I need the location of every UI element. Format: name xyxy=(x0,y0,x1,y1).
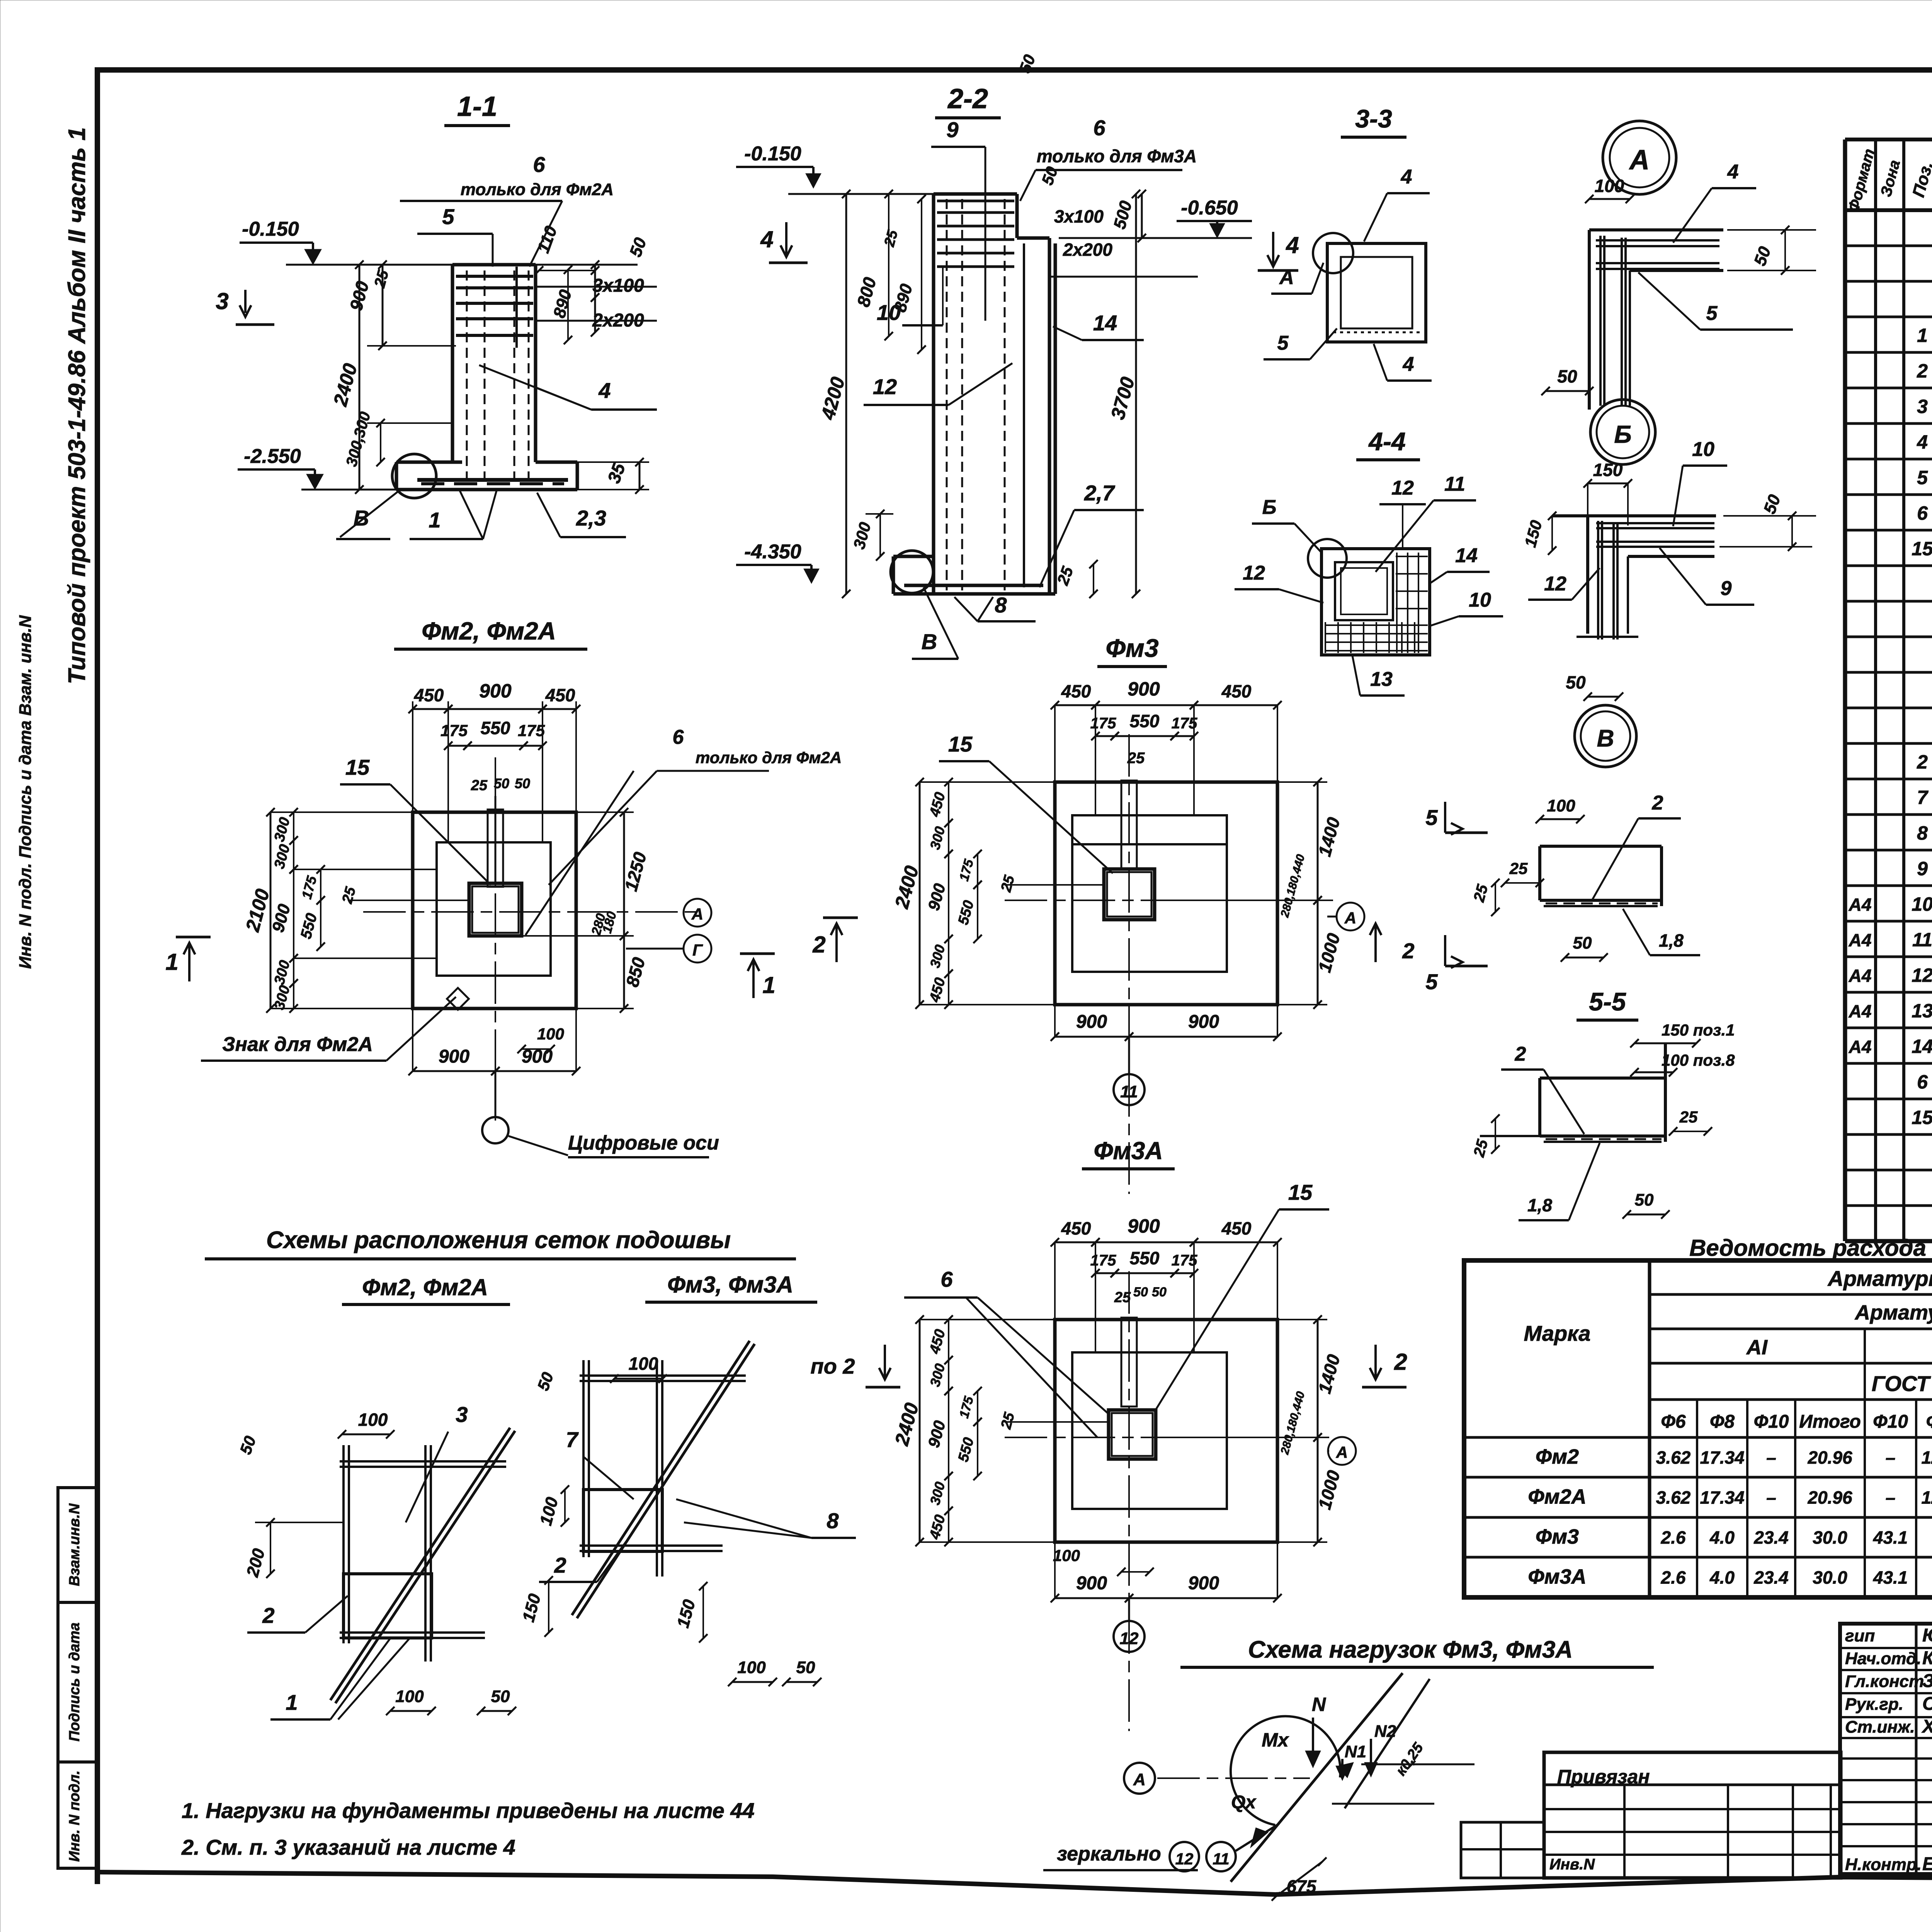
load scheme diagram xyxy=(1124,1763,1155,1794)
svg-text:Гл.конст: Гл.конст xyxy=(1845,1672,1924,1691)
detail B dims xyxy=(1588,483,1628,485)
svg-text:6: 6 xyxy=(1917,1071,1928,1093)
load scheme N2 arrow xyxy=(1370,1739,1372,1772)
svg-text:30.0: 30.0 xyxy=(1813,1527,1847,1548)
svg-text:Подпись и дата: Подпись и дата xyxy=(66,1622,83,1742)
svg-text:15: 15 xyxy=(948,732,973,756)
detail circle B on footing xyxy=(392,454,436,498)
svg-text:3: 3 xyxy=(456,1402,468,1427)
section mark 5 upper xyxy=(1445,802,1463,835)
svg-text:175: 175 xyxy=(1090,715,1116,732)
svg-text:Зильбертов: Зильбертов xyxy=(1922,1671,1932,1691)
svg-text:2х200: 2х200 xyxy=(1063,240,1112,260)
svg-text:А: А xyxy=(1344,909,1356,927)
detail V circle xyxy=(1575,705,1636,767)
plan Fm2 bottom dims xyxy=(413,1070,495,1072)
svg-text:только для Фм2А: только для Фм2А xyxy=(461,180,614,199)
svg-text:12: 12 xyxy=(873,374,897,399)
plan Fm3 centerlines xyxy=(1005,900,1333,901)
svg-text:А: А xyxy=(1133,1770,1146,1789)
svg-text:Типовой проект 503-1-49.86 Аль: Типовой проект 503-1-49.86 Альбом II час… xyxy=(64,127,90,684)
svg-text:9: 9 xyxy=(1917,858,1928,879)
svg-text:В: В xyxy=(354,506,369,530)
svg-text:6: 6 xyxy=(533,152,545,177)
svg-text:12: 12 xyxy=(1120,1629,1139,1648)
svg-text:550: 550 xyxy=(1130,711,1160,731)
section 3-3 square xyxy=(1327,243,1426,342)
svg-text:2,3: 2,3 xyxy=(576,506,606,530)
plan Fm2 left dims xyxy=(270,812,272,1009)
svg-text:1: 1 xyxy=(165,949,178,975)
svg-text:1,8: 1,8 xyxy=(1527,1195,1552,1215)
svg-text:13: 13 xyxy=(1912,1000,1932,1022)
plan Fm3A outline xyxy=(1055,1320,1277,1542)
svg-text:1. Нагрузки на фундаменты: 1. Нагрузки на фундаменты приведены на л… xyxy=(182,1798,755,1823)
plan Fm3A anchor xyxy=(1121,1318,1137,1406)
svg-text:Фм3: Фм3 xyxy=(1536,1525,1579,1548)
svg-text:4: 4 xyxy=(760,226,773,252)
svg-text:5: 5 xyxy=(1917,467,1928,488)
svg-text:23.4: 23.4 xyxy=(1753,1527,1789,1548)
svg-text:450: 450 xyxy=(1061,1218,1091,1238)
svg-text:50: 50 xyxy=(796,1658,815,1677)
svg-text:Г: Г xyxy=(692,941,703,959)
svg-text:6: 6 xyxy=(673,726,684,748)
svg-text:только для Фм3А: только для Фм3А xyxy=(1037,146,1197,166)
svg-text:14: 14 xyxy=(1912,1036,1932,1057)
svg-text:Фм3, Фм3А: Фм3, Фм3А xyxy=(667,1272,793,1298)
mesh scheme 2 (Fm3) xyxy=(580,1374,746,1377)
svg-text:17.34: 17.34 xyxy=(1700,1447,1744,1468)
svg-text:10: 10 xyxy=(1692,438,1714,461)
svg-text:Инв. N подл. Подпись и дата: Инв. N подл. Подпись и дата Взам. инв.N xyxy=(16,615,35,969)
svg-text:А: А xyxy=(1336,1443,1348,1461)
svg-text:100: 100 xyxy=(737,1658,766,1677)
svg-text:50: 50 xyxy=(494,776,509,791)
svg-text:1: 1 xyxy=(1917,325,1928,346)
svg-text:7: 7 xyxy=(566,1427,579,1452)
plan Fm2 centerlines xyxy=(363,911,699,913)
svg-text:Рук.гр.: Рук.гр. xyxy=(1845,1695,1903,1714)
svg-text:Знак для Фм2А: Знак для Фм2А xyxy=(222,1033,373,1056)
svg-text:-0.150: -0.150 xyxy=(242,218,299,240)
svg-text:2: 2 xyxy=(1917,751,1928,773)
plan Fm3A section mark 2 right xyxy=(1370,1345,1381,1379)
svg-text:5: 5 xyxy=(1277,332,1289,354)
svg-text:5: 5 xyxy=(442,204,454,229)
plan Fm2 anchor detail xyxy=(488,810,503,887)
svg-text:Катков: Катков xyxy=(1922,1648,1932,1668)
svg-text:Ф6: Ф6 xyxy=(1661,1412,1685,1432)
svg-text:450: 450 xyxy=(1221,681,1252,701)
svg-text:Фм2А: Фм2А xyxy=(1528,1485,1586,1509)
svg-text:12.44: 12.44 xyxy=(1921,1447,1932,1468)
svg-text:14: 14 xyxy=(1455,544,1478,567)
svg-text:Фм2, Фм2А: Фм2, Фм2А xyxy=(362,1274,488,1300)
svg-text:50: 50 xyxy=(515,776,530,791)
detail B circle xyxy=(1590,400,1655,464)
svg-text:5: 5 xyxy=(1706,302,1718,325)
svg-text:2,7: 2,7 xyxy=(1084,481,1116,505)
svg-text:Qх: Qх xyxy=(1231,1792,1257,1813)
svg-text:Цифровые оси: Цифровые оси xyxy=(568,1132,719,1154)
svg-text:2: 2 xyxy=(812,932,825,957)
svg-text:4: 4 xyxy=(1401,166,1412,188)
svg-text:АI: АI xyxy=(1746,1336,1768,1359)
svg-text:100: 100 xyxy=(537,1025,564,1043)
svg-text:100: 100 xyxy=(1053,1546,1080,1565)
svg-text:50: 50 xyxy=(1557,366,1577,386)
svg-text:10: 10 xyxy=(1912,893,1932,915)
svg-text:1: 1 xyxy=(286,1690,298,1714)
svg-text:3х100: 3х100 xyxy=(1054,206,1104,226)
svg-text:А: А xyxy=(691,905,703,923)
svg-text:25: 25 xyxy=(1679,1108,1698,1126)
plan Fm3A top dims xyxy=(1055,1242,1095,1243)
load scheme N arrow xyxy=(1312,1718,1314,1762)
plan Fm2 A G circles xyxy=(684,899,711,927)
detail below 5-5 xyxy=(1540,1077,1665,1080)
svg-text:50: 50 xyxy=(491,1687,510,1706)
svg-text:150 поз.1: 150 поз.1 xyxy=(1662,1021,1735,1039)
svg-text:175: 175 xyxy=(1090,1252,1116,1269)
svg-text:3.62: 3.62 xyxy=(1656,1447,1691,1468)
svg-text:-0.650: -0.650 xyxy=(1181,197,1238,219)
svg-text:3.62: 3.62 xyxy=(1656,1488,1691,1508)
svg-text:1-1: 1-1 xyxy=(457,91,497,122)
svg-text:-0.150: -0.150 xyxy=(744,143,801,165)
svg-text:900: 900 xyxy=(1128,1215,1160,1237)
svg-text:20.96: 20.96 xyxy=(1807,1488,1852,1508)
svg-text:550: 550 xyxy=(1130,1248,1160,1268)
svg-text:Инв. N подл.: Инв. N подл. xyxy=(66,1770,83,1862)
svg-text:Арматурные изделия: Арматурные изделия xyxy=(1827,1266,1932,1291)
svg-text:–: – xyxy=(1886,1488,1896,1508)
svg-text:2.6: 2.6 xyxy=(1661,1527,1686,1548)
svg-text:30.0: 30.0 xyxy=(1813,1568,1847,1588)
section 4-4 squares xyxy=(1321,549,1430,655)
detail A circle xyxy=(1603,121,1676,194)
svg-text:2: 2 xyxy=(1917,360,1928,382)
svg-text:25: 25 xyxy=(1509,859,1528,878)
svg-text:6: 6 xyxy=(940,1267,953,1291)
svg-text:450: 450 xyxy=(414,685,444,705)
left margin stamp boxes xyxy=(58,1488,97,1868)
svg-text:100: 100 xyxy=(1547,796,1575,815)
section 1-1 rebar xyxy=(466,270,468,485)
svg-text:6: 6 xyxy=(1917,502,1928,524)
plan Fm3A A circle xyxy=(1328,1437,1356,1465)
svg-text:25: 25 xyxy=(1127,750,1145,767)
svg-text:только для Фм2А: только для Фм2А xyxy=(696,748,842,767)
svg-text:17.34: 17.34 xyxy=(1700,1488,1744,1508)
section 2-2 rebar xyxy=(946,199,948,590)
section 1-1 column outline xyxy=(451,265,454,462)
svg-text:1: 1 xyxy=(429,508,440,532)
svg-text:Ст.инж.: Ст.инж. xyxy=(1845,1718,1915,1736)
svg-text:–: – xyxy=(1766,1488,1776,1508)
plan Fm3 axis circle 11 xyxy=(1114,1074,1145,1105)
svg-text:А4: А4 xyxy=(1849,1001,1872,1021)
svg-text:Взам.инв.N: Взам.инв.N xyxy=(66,1503,83,1586)
svg-text:Схема нагрузок Фм3, Фм3А: Схема нагрузок Фм3, Фм3А xyxy=(1248,1636,1573,1663)
svg-text:675: 675 xyxy=(1287,1876,1317,1896)
svg-text:2: 2 xyxy=(554,1553,566,1577)
svg-text:Хвостова: Хвостова xyxy=(1921,1716,1932,1737)
svg-text:8: 8 xyxy=(995,593,1007,617)
svg-text:175: 175 xyxy=(518,721,545,740)
plan Fm3A right dims xyxy=(1317,1320,1319,1437)
svg-text:А4: А4 xyxy=(1849,1037,1872,1057)
section mark 5 lower + 2 xyxy=(1445,935,1463,968)
plan Fm3 right dims xyxy=(1317,782,1319,900)
svg-text:14: 14 xyxy=(1093,311,1117,335)
svg-text:2: 2 xyxy=(1402,939,1414,963)
svg-text:1,8: 1,8 xyxy=(1659,930,1684,951)
svg-text:Оруджева: Оруджева xyxy=(1922,1694,1932,1714)
svg-text:100: 100 xyxy=(358,1410,388,1430)
svg-text:1: 1 xyxy=(762,972,775,998)
svg-text:15: 15 xyxy=(1912,1107,1932,1128)
svg-text:20.96: 20.96 xyxy=(1807,1447,1852,1468)
svg-text:Нач.отд.: Нач.отд. xyxy=(1845,1649,1921,1668)
plan Fm2 right dims xyxy=(623,812,625,936)
svg-text:Арматура класса: Арматура класса xyxy=(1854,1301,1932,1324)
svg-text:А4: А4 xyxy=(1849,966,1872,986)
svg-text:900: 900 xyxy=(1128,678,1160,700)
svg-text:по 2: по 2 xyxy=(810,1354,855,1378)
svg-text:7: 7 xyxy=(1917,787,1929,808)
svg-text:10: 10 xyxy=(877,300,901,325)
specification table grid xyxy=(1843,139,1847,1241)
small grid left of privyazan xyxy=(1461,1822,1544,1878)
title block signature table xyxy=(1840,1624,1932,1874)
svg-text:23.4: 23.4 xyxy=(1753,1568,1789,1588)
svg-text:11: 11 xyxy=(1120,1082,1138,1101)
detail below 5-5 dims xyxy=(1634,1043,1696,1044)
svg-text:-4.350: -4.350 xyxy=(744,541,801,563)
svg-text:А: А xyxy=(1629,145,1650,175)
svg-text:Марка: Марка xyxy=(1524,1321,1591,1345)
svg-text:11: 11 xyxy=(1213,1850,1230,1868)
mesh scheme 1 (Fm2) xyxy=(340,1460,506,1463)
svg-text:175: 175 xyxy=(440,721,468,740)
svg-text:100: 100 xyxy=(629,1354,658,1374)
svg-text:В: В xyxy=(1597,725,1614,752)
detail A dims xyxy=(1589,198,1630,200)
svg-text:50: 50 xyxy=(1573,934,1592,952)
detail A drawing xyxy=(1589,228,1723,231)
svg-text:12: 12 xyxy=(1243,562,1265,584)
svg-text:12: 12 xyxy=(1391,477,1414,499)
svg-text:2. См. п. 3 указаний на: 2. См. п. 3 указаний на листе 4 xyxy=(181,1835,515,1859)
svg-text:900: 900 xyxy=(1076,1573,1107,1594)
svg-text:Фм3А: Фм3А xyxy=(1528,1565,1586,1588)
plan Fm3 A circle xyxy=(1337,903,1364,930)
svg-text:8: 8 xyxy=(1917,822,1928,844)
svg-text:900: 900 xyxy=(1188,1012,1219,1032)
plan Fm2 top dims xyxy=(413,708,448,710)
svg-text:2: 2 xyxy=(1394,1349,1407,1375)
plan Fm3 anchor xyxy=(1121,781,1137,869)
load scheme main diagonal xyxy=(1231,1673,1403,1882)
svg-text:50: 50 xyxy=(1635,1190,1654,1209)
detail above 5-5 xyxy=(1540,845,1662,848)
svg-text:100: 100 xyxy=(395,1687,424,1706)
svg-text:6: 6 xyxy=(1093,116,1105,140)
svg-text:450: 450 xyxy=(1221,1218,1252,1238)
svg-text:Б: Б xyxy=(1262,496,1277,519)
svg-text:ГОСТ 5781-82*: ГОСТ 5781-82* xyxy=(1872,1371,1932,1396)
svg-text:Ф10: Ф10 xyxy=(1754,1412,1789,1432)
svg-text:Итого: Итого xyxy=(1799,1412,1861,1432)
svg-text:В: В xyxy=(922,629,937,654)
plan Fm3 bottom dims xyxy=(1055,1036,1129,1038)
svg-text:550: 550 xyxy=(481,718,510,738)
svg-text:12.44: 12.44 xyxy=(1921,1488,1932,1508)
svg-text:Ф10: Ф10 xyxy=(1873,1412,1908,1432)
plan Fm3A bottom dims xyxy=(1055,1597,1129,1599)
svg-text:N: N xyxy=(1312,1694,1326,1715)
svg-text:–: – xyxy=(1766,1447,1776,1468)
svg-text:13: 13 xyxy=(1370,668,1393,690)
detail above 5-5 dims xyxy=(1540,818,1580,820)
svg-text:12: 12 xyxy=(1175,1850,1194,1868)
load scheme ref lines xyxy=(1361,1764,1475,1765)
svg-text:450: 450 xyxy=(545,685,575,705)
privyazan block xyxy=(1544,1752,1841,1878)
plan Fm3A left dims xyxy=(919,1320,921,1542)
plan Fm3A centerlines xyxy=(1005,1437,1329,1438)
svg-text:Б: Б xyxy=(1614,420,1631,448)
svg-text:15: 15 xyxy=(345,755,370,779)
svg-text:гип: гип xyxy=(1845,1626,1875,1645)
svg-text:3: 3 xyxy=(1917,396,1928,417)
svg-text:Есина: Есина xyxy=(1922,1854,1932,1874)
svg-text:900: 900 xyxy=(479,680,512,702)
svg-text:4.0: 4.0 xyxy=(1709,1527,1735,1548)
section 4-4 mesh hatch xyxy=(1325,622,1326,653)
svg-text:900: 900 xyxy=(1076,1012,1107,1032)
svg-text:50: 50 xyxy=(1133,1285,1148,1299)
svg-text:Фм2, Фм2А: Фм2, Фм2А xyxy=(422,617,556,645)
svg-text:Ведомость расхода стали н: Ведомость расхода стали на один элемент,… xyxy=(1689,1235,1932,1261)
svg-text:8: 8 xyxy=(827,1509,839,1533)
load scheme second diagonal xyxy=(1345,1679,1430,1808)
svg-text:5: 5 xyxy=(1425,805,1438,830)
svg-text:15: 15 xyxy=(1912,538,1932,560)
svg-text:Ф8: Ф8 xyxy=(1710,1412,1735,1432)
svg-text:43.1: 43.1 xyxy=(1873,1568,1908,1588)
svg-text:2: 2 xyxy=(1515,1043,1526,1065)
section 2-2 detail circle xyxy=(891,551,933,593)
steel table grid xyxy=(1464,1260,1932,1597)
plan Fm3 left dims xyxy=(919,782,921,1005)
svg-text:10: 10 xyxy=(1469,589,1491,611)
svg-text:Юрин: Юрин xyxy=(1922,1625,1932,1646)
svg-text:2.6: 2.6 xyxy=(1661,1568,1686,1588)
plan Fm2 outline xyxy=(413,812,576,1009)
svg-text:Фм3А: Фм3А xyxy=(1094,1137,1163,1165)
svg-text:4.0: 4.0 xyxy=(1709,1568,1735,1588)
svg-text:5-5: 5-5 xyxy=(1589,987,1626,1016)
svg-text:43.1: 43.1 xyxy=(1873,1527,1908,1548)
load scheme 675 dim xyxy=(1276,1862,1322,1896)
svg-text:Ф12: Ф12 xyxy=(1926,1412,1932,1432)
svg-text:2: 2 xyxy=(262,1603,274,1628)
svg-text:4: 4 xyxy=(1286,232,1299,258)
svg-text:4: 4 xyxy=(598,378,611,403)
svg-text:15: 15 xyxy=(1288,1180,1313,1204)
svg-text:Фм3: Фм3 xyxy=(1105,634,1158,662)
svg-text:3-3: 3-3 xyxy=(1355,104,1392,133)
svg-text:900: 900 xyxy=(1188,1573,1219,1594)
load scheme N1 arrow xyxy=(1341,1759,1344,1775)
svg-text:11: 11 xyxy=(1912,929,1932,951)
plan Fm2 axis circle xyxy=(482,1117,509,1143)
sheet frame xyxy=(97,67,1932,73)
svg-text:12: 12 xyxy=(1544,573,1566,595)
svg-text:N1: N1 xyxy=(1345,1742,1366,1761)
svg-text:Схемы расположения сеток: Схемы расположения сеток подошвы xyxy=(266,1227,731,1253)
svg-text:Фм2: Фм2 xyxy=(1536,1445,1579,1468)
svg-text:50: 50 xyxy=(1152,1285,1167,1299)
svg-text:150: 150 xyxy=(1593,460,1623,480)
section 3-3 labels xyxy=(1313,233,1353,273)
svg-text:100: 100 xyxy=(1595,176,1624,196)
svg-text:А: А xyxy=(1279,266,1294,289)
svg-text:9: 9 xyxy=(1721,577,1732,600)
svg-text:А4: А4 xyxy=(1849,895,1872,915)
svg-text:900: 900 xyxy=(439,1046,469,1067)
svg-text:3: 3 xyxy=(216,288,228,314)
svg-text:11: 11 xyxy=(1444,473,1465,495)
section 2-2 outline xyxy=(932,194,935,594)
plan Fm3 top dims xyxy=(1055,704,1095,706)
svg-text:2-2: 2-2 xyxy=(947,83,988,114)
svg-text:25: 25 xyxy=(471,777,488,794)
svg-text:100 поз.8: 100 поз.8 xyxy=(1662,1051,1735,1069)
svg-text:4: 4 xyxy=(1727,161,1739,183)
svg-text:4: 4 xyxy=(1917,431,1928,453)
plan Fm3 outline xyxy=(1055,782,1277,1005)
section 4-4 labels xyxy=(1308,539,1347,578)
svg-text:5: 5 xyxy=(1425,969,1438,994)
load scheme moment arc Mx xyxy=(1231,1716,1340,1825)
svg-text:12: 12 xyxy=(1912,964,1932,986)
svg-text:2: 2 xyxy=(1652,792,1663,814)
svg-text:25: 25 xyxy=(1114,1289,1131,1306)
svg-text:зеркально: зеркально xyxy=(1057,1843,1161,1865)
detail B drawing xyxy=(1552,514,1716,517)
svg-text:450: 450 xyxy=(1061,681,1091,701)
plan Fm3A axis circle 12 xyxy=(1114,1621,1145,1652)
svg-text:9: 9 xyxy=(946,117,958,142)
svg-text:–: – xyxy=(1886,1447,1896,1468)
svg-text:4: 4 xyxy=(1403,353,1414,376)
svg-text:Мх: Мх xyxy=(1262,1729,1289,1751)
svg-text:4-4: 4-4 xyxy=(1368,427,1405,456)
svg-text:50: 50 xyxy=(1566,672,1586,692)
svg-text:Инв.N: Инв.N xyxy=(1549,1856,1595,1873)
svg-text:Н.контр.: Н.контр. xyxy=(1845,1855,1922,1874)
svg-text:-2.550: -2.550 xyxy=(244,445,301,468)
svg-text:А4: А4 xyxy=(1849,930,1872,950)
svg-text:N2: N2 xyxy=(1374,1722,1396,1741)
